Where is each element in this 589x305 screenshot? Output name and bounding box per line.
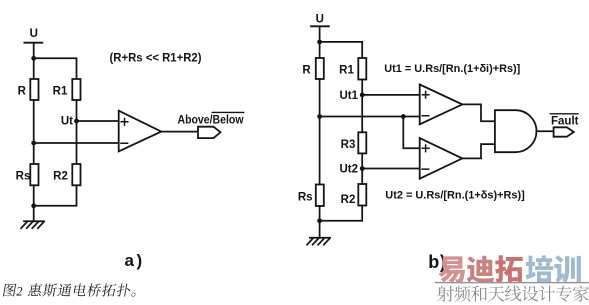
watermark logo text 易迪拓培训 xyxy=(438,255,580,283)
svg-text:U: U xyxy=(30,28,38,40)
op-amp comparator upper (circuit b) xyxy=(420,85,463,125)
wire lower comparator output to AND xyxy=(462,144,495,158)
wire U to top node xyxy=(33,43,35,59)
wire top node to R1 branch xyxy=(34,58,77,79)
wire bottom node to R2 xyxy=(34,185,77,206)
wire Ut1 to upper comparator non-inverting input xyxy=(362,94,420,96)
wire bottom node b to ground xyxy=(319,221,321,238)
wire U to top node b xyxy=(319,26,321,42)
op-amp comparator U1 (circuit a) xyxy=(119,111,162,152)
resistor R xyxy=(18,79,39,100)
wire AND output xyxy=(537,130,554,132)
svg-text:R2: R2 xyxy=(53,171,68,183)
junction top node a xyxy=(31,56,36,61)
wire midpoint to comparator inverting input xyxy=(34,142,119,144)
node Ut2 xyxy=(339,164,364,176)
junction bottom node a xyxy=(31,203,36,208)
wire top node to R1 branch b xyxy=(320,42,363,58)
svg-text:R1: R1 xyxy=(339,65,354,77)
wire Ut to comparator non-inverting input xyxy=(77,120,119,122)
node U (supply, circuit b) xyxy=(311,13,329,26)
svg-text:R3: R3 xyxy=(341,139,356,151)
junction top node b xyxy=(317,40,322,45)
wire comparator output xyxy=(161,131,198,133)
label Above/Below with overline on Below xyxy=(178,112,244,126)
ground (circuit a) xyxy=(21,221,44,228)
wire top node to R b xyxy=(319,42,321,58)
svg-text:2: 2 xyxy=(16,284,22,298)
svg-text:Ut2 = U.Rs/[Rn.(1+δs)+Rs)]: Ut2 = U.Rs/[Rn.(1+δs)+Rs)] xyxy=(385,190,525,202)
resistor R2 (b) xyxy=(341,184,367,206)
node Ut xyxy=(61,116,79,128)
watermark divider line xyxy=(436,282,589,284)
svg-text:U: U xyxy=(316,13,324,25)
wire upper comparator output to AND xyxy=(462,104,495,121)
node Ut1 xyxy=(339,90,364,102)
resistor R2 xyxy=(53,164,80,185)
svg-text:R: R xyxy=(302,65,311,77)
svg-text:(R+Rs << R1+R2): (R+Rs << R1+R2) xyxy=(110,53,202,65)
svg-text:Above/Below: Above/Below xyxy=(178,114,244,126)
op-amp comparator lower (circuit b) xyxy=(420,138,463,179)
svg-text:R2: R2 xyxy=(341,194,356,206)
junction midpoint tee xyxy=(401,114,406,119)
wire R1 to R3 xyxy=(361,80,363,133)
svg-text:a): a) xyxy=(125,251,145,270)
resistor Rs (b) xyxy=(298,185,324,207)
svg-text:Rs: Rs xyxy=(16,171,31,183)
caption: figure 2 Wheatstone bridge topology (italic) xyxy=(3,283,136,298)
resistor R3 xyxy=(341,132,367,153)
output flag Fault xyxy=(554,127,574,136)
output flag Above/Below xyxy=(198,127,221,138)
svg-text:R1: R1 xyxy=(53,86,68,98)
resistor R1 xyxy=(53,79,81,100)
wire R to Rs xyxy=(33,100,35,164)
label Fault with overline xyxy=(550,114,578,128)
svg-text:Ut2: Ut2 xyxy=(339,164,358,176)
wire midpoint b to comparators xyxy=(320,116,420,118)
wire Rs to bottom node xyxy=(33,185,35,206)
svg-text:Ut1: Ut1 xyxy=(339,90,358,102)
wire bottom node to ground xyxy=(33,206,35,222)
svg-text:Ut: Ut xyxy=(61,116,73,128)
wire Rs to bottom node b xyxy=(319,206,321,221)
svg-text:Fault: Fault xyxy=(551,115,579,127)
resistor Rs xyxy=(16,164,39,185)
ground (circuit b) xyxy=(307,238,330,245)
watermark subtitle 射频和天线设计专家 xyxy=(437,285,588,301)
junction R/Rs midpoint xyxy=(31,141,36,146)
node U (supply, circuit a) xyxy=(24,28,42,43)
svg-text:Rs: Rs xyxy=(298,191,313,203)
svg-text:Ut1 = U.Rs/[Rn.(1+δi)+Rs)]: Ut1 = U.Rs/[Rn.(1+δi)+Rs)] xyxy=(384,63,520,75)
junction bottom node b xyxy=(317,218,322,223)
resistor R (b) xyxy=(302,58,323,79)
wire bottom node b to R2 xyxy=(320,206,363,221)
svg-text:R: R xyxy=(18,86,27,98)
wire R to Rs (b) xyxy=(319,79,321,185)
junction R/Rs midpoint b xyxy=(317,114,322,119)
resistor R1 (b) xyxy=(339,58,366,80)
wire R1 to R2 xyxy=(76,100,78,164)
wire R3 to R2 (b) xyxy=(361,153,363,184)
wire Ut2 to lower comparator inverting input xyxy=(362,168,420,170)
wire tee down to lower comparator non-inverting input xyxy=(403,117,419,149)
AND gate xyxy=(495,110,537,152)
wire top node to R xyxy=(33,58,35,79)
